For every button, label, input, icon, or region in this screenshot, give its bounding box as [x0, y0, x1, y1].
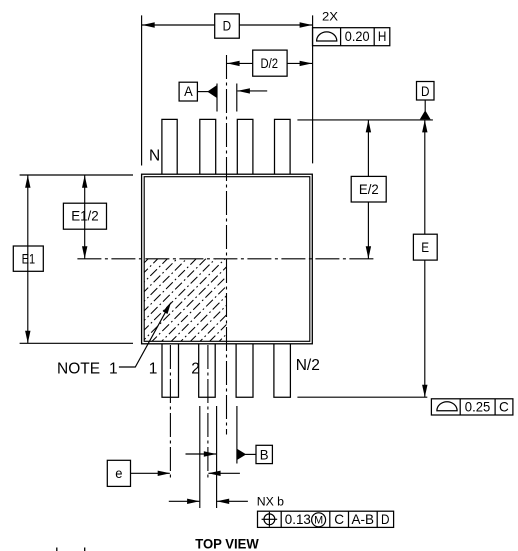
lead 2 centerline — [207, 345, 209, 481]
dimension D/2 arrow right — [300, 61, 313, 66]
dimension E line — [424, 120, 426, 397]
svg-text:A: A — [184, 84, 193, 99]
datum B label box — [256, 445, 272, 463]
dimension e arrowhead right — [158, 471, 171, 476]
dimension D/2 arrow left — [227, 61, 240, 66]
svg-text:D/2: D/2 — [261, 56, 279, 71]
dimension b arrowhead left — [187, 499, 200, 504]
profile tolerance frame 0.25 C — [431, 399, 513, 415]
svg-text:D: D — [381, 512, 390, 527]
svg-text:D: D — [223, 19, 232, 34]
extension line body right-top — [312, 15, 314, 163]
position tolerance frame 0.13 M C A-B D — [258, 511, 394, 527]
bottom lead 3 — [236, 344, 253, 398]
dimension b arrowhead right — [217, 499, 230, 504]
datum A leader — [197, 91, 209, 93]
horizontal centerline — [77, 258, 376, 260]
svg-text:E1/2: E1/2 — [71, 208, 99, 223]
dimension D arrow right — [300, 22, 313, 27]
extension line body top-left — [20, 174, 133, 176]
dimension E1/2 arrow down — [82, 246, 87, 258]
svg-text:A-B: A-B — [352, 512, 375, 527]
datum B triangle — [237, 449, 246, 460]
arrow at lead2 right edge — [186, 453, 217, 455]
dimension E/2 line — [367, 120, 369, 259]
note 1 arrowhead — [163, 302, 171, 314]
bottom lead 1 — [162, 344, 179, 398]
datum D leader — [424, 100, 426, 111]
svg-text:E: E — [421, 240, 429, 255]
datum B leader — [246, 453, 257, 455]
svg-text:e: e — [115, 466, 122, 481]
dimension D/2 label box — [253, 50, 287, 76]
extension line lead3 left edge top — [236, 84, 238, 112]
dimension D/2 line — [227, 62, 313, 64]
bottom lead 4 — [274, 344, 291, 398]
arrowhead at lead3 left edge — [237, 88, 250, 93]
dimension E/2 label box — [351, 176, 386, 202]
svg-text:C: C — [334, 512, 344, 527]
arrowhead at lead2 right edge — [204, 451, 217, 456]
note 1 leader — [119, 305, 169, 367]
svg-text:B: B — [260, 447, 269, 462]
dimension D label box — [215, 14, 240, 38]
dimension E1 arrow down — [25, 331, 30, 344]
dimension E label box — [413, 234, 437, 260]
extension line lead2 left edge bottom — [199, 406, 201, 508]
svg-text:0.25: 0.25 — [465, 399, 491, 414]
bottom lead 2 — [199, 344, 216, 398]
svg-text:1: 1 — [109, 361, 118, 378]
datum A label box — [179, 82, 197, 101]
top lead 4 — [275, 119, 291, 174]
extension line lead tips bottom-right — [297, 396, 427, 398]
top lead 1 — [162, 119, 177, 174]
svg-text:0.20: 0.20 — [345, 29, 370, 44]
vertical centerline — [226, 55, 228, 435]
dimension b arrow right — [217, 500, 248, 502]
dimension E arrow down — [422, 385, 427, 398]
svg-text:E1: E1 — [22, 251, 36, 266]
svg-text:M: M — [314, 515, 323, 527]
dimension D line — [142, 24, 313, 26]
svg-text:D: D — [421, 84, 430, 99]
dimension E/2 arrow up — [366, 120, 371, 132]
extension line lead3 left edge bottom — [236, 406, 238, 464]
profile tolerance frame 2X 0.20 H — [313, 28, 390, 46]
svg-text:E/2: E/2 — [359, 182, 379, 197]
svg-text:N/2: N/2 — [296, 357, 320, 374]
next view lead stub left — [56, 548, 58, 551]
dimension E arrow up — [422, 120, 427, 132]
dimension E1/2 line — [84, 175, 86, 259]
extension line lead2 right edge bottom — [216, 406, 218, 508]
hatched note-1 index area — [144, 259, 226, 342]
svg-text:H: H — [378, 29, 387, 44]
dimension E1 line — [27, 175, 29, 343]
dimension E/2 arrow down — [366, 246, 371, 258]
extension line body bottom-left — [20, 342, 133, 344]
datum D triangle — [420, 110, 431, 119]
dimension e label box — [107, 460, 130, 486]
dimension e arrowhead left — [208, 471, 221, 476]
svg-text:N: N — [149, 148, 160, 165]
lead 1 centerline — [169, 345, 171, 481]
top lead 2 — [200, 119, 216, 174]
package body inner edge — [144, 177, 310, 342]
svg-text:0.13: 0.13 — [285, 512, 311, 527]
dimension b arrow left — [169, 500, 200, 502]
extension line lead tips top-right — [297, 119, 433, 121]
svg-text:2X: 2X — [322, 10, 338, 24]
extension line body left-top — [141, 15, 143, 165]
datum A triangle — [207, 85, 216, 98]
svg-text:C: C — [499, 399, 509, 414]
svg-text:1: 1 — [149, 361, 158, 378]
dimension e second arrow — [208, 472, 240, 474]
extension line lead2 right edge top — [216, 84, 218, 112]
dimension E1/2 arrow up — [82, 175, 87, 188]
svg-text:NOTE: NOTE — [57, 361, 100, 378]
package body outer edge — [142, 174, 313, 344]
datum D label box — [417, 82, 435, 101]
top lead 3 — [237, 119, 253, 174]
svg-text:TOP VIEW: TOP VIEW — [195, 536, 259, 551]
dimension E1 label box — [13, 246, 43, 271]
dimension E1 arrow up — [25, 175, 30, 188]
svg-text:2: 2 — [191, 361, 200, 378]
next view lead stub right — [84, 548, 86, 551]
dimension E1/2 label box — [63, 203, 106, 229]
arrow at lead3 left edge — [237, 90, 267, 92]
dimension e leader arrow — [131, 472, 170, 474]
dimension D arrow left — [142, 22, 155, 27]
svg-text:NX b: NX b — [257, 495, 284, 509]
